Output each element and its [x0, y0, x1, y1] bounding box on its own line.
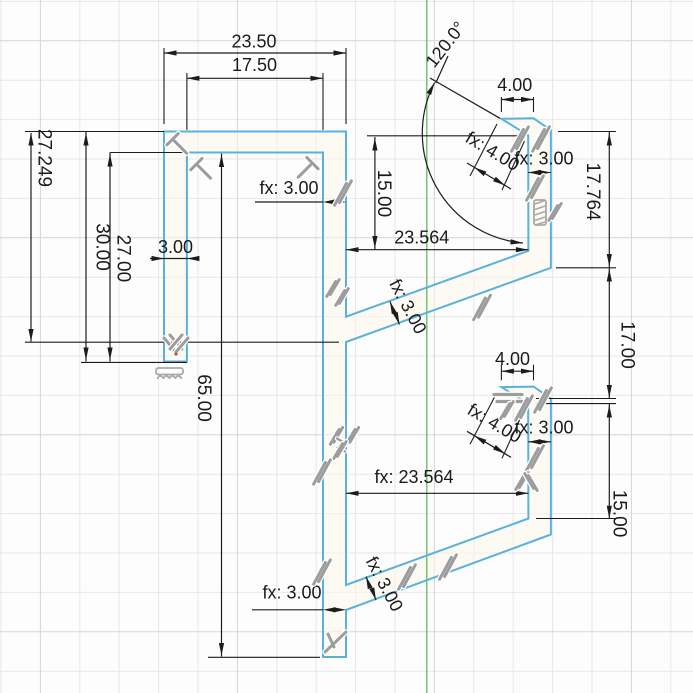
- dimension 120.0&#176;: [422, 83, 523, 243]
- dimension 23.564: [346, 249, 528, 251]
- dimension 65.00: [221, 154, 223, 657]
- constraint: parallel marks on lower strip inner face: [527, 446, 544, 470]
- dimension 15.00 (upper): [374, 137, 376, 250]
- svg-text:3.00: 3.00: [158, 237, 193, 257]
- dimension 27.249: [30, 133, 32, 342]
- svg-text:17.764: 17.764: [582, 163, 603, 222]
- svg-text:15.00: 15.00: [373, 170, 394, 218]
- constraint: marks near lower strip bend: [516, 473, 528, 490]
- red point at arm bottom: [174, 352, 177, 355]
- dimension 17.50: [187, 77, 323, 79]
- svg-text:4.00: 4.00: [495, 349, 530, 369]
- svg-text:15.00: 15.00: [608, 490, 629, 538]
- profile fill: [164, 118, 551, 657]
- dimension 4.00 (upper): [501, 99, 533, 101]
- constraint: parallel marks at upper tab: [512, 127, 529, 151]
- constraint: fixed (hatched) icon on upper strip: [534, 200, 546, 225]
- constraint: parallel marks on bottom diagonal: [440, 555, 457, 579]
- Y axis (green): [426, 0, 428, 693]
- constraint: parallel marks crossing wall at bottom diagonal: [314, 560, 331, 584]
- constraint: squiggle marks on wall mid: [337, 439, 345, 452]
- svg-text:fx: 23.564: fx: 23.564: [374, 467, 453, 487]
- svg-text:17.00: 17.00: [616, 321, 637, 369]
- svg-text:fx: 3.00: fx: 3.00: [514, 149, 573, 169]
- constraint: parallel marks near top bar right end: [335, 181, 352, 205]
- constraint: parallel marks right of fixed icon: [549, 204, 561, 221]
- constraint: parallel marks on middle diagonal: [474, 295, 491, 319]
- dimension fx: 3.00 (middle diagonal): [390, 302, 400, 325]
- profile outline (sketch): [164, 118, 551, 657]
- dimension 23.50: [164, 52, 346, 54]
- svg-text:27.249: 27.249: [33, 129, 54, 187]
- dimension fx: 23.564: [346, 492, 528, 494]
- dimension fx: 3.00 (bottom diagonal): [366, 577, 376, 601]
- svg-text:23.564: 23.564: [394, 228, 449, 248]
- svg-text:17.50: 17.50: [232, 55, 277, 75]
- constraint: parallel marks crossing wall lower-mid: [314, 460, 331, 484]
- svg-text:23.50: 23.50: [231, 32, 276, 52]
- constraint: perpendicular T at inner top-left corner: [191, 158, 216, 183]
- dimension fx: 4.00 (upper): [470, 124, 497, 176]
- svg-text:30.00: 30.00: [91, 223, 112, 271]
- dimension 27.00: [109, 153, 111, 362]
- dimension 17.764: [608, 132, 610, 268]
- svg-text:4.00: 4.00: [497, 75, 532, 95]
- svg-text:27.00: 27.00: [112, 235, 133, 283]
- dimension 4.00 (lower): [501, 370, 533, 372]
- dimension 30.00: [85, 132, 87, 362]
- constraint: perpendicular T inside wall bottom: [325, 632, 346, 652]
- constraint: V marks at left arm bottom: [164, 335, 182, 352]
- dimension 17.00: [608, 268, 610, 399]
- constraint: equal marks on wall mid: [330, 427, 342, 444]
- dimension fx: 4.00 (lower): [470, 392, 497, 444]
- constraint: perpendicular T near inner top-right: [293, 157, 318, 182]
- svg-text:fx: 3.00: fx: 3.00: [514, 418, 573, 438]
- constraint: parallel marks at middle diagonal near wall: [336, 289, 348, 306]
- constraint: fixed (hatched) icon below left arm: [156, 368, 183, 379]
- constraint: parallel marks on bottom diagonal mid: [399, 565, 416, 589]
- svg-text:fx: 3.00: fx: 3.00: [259, 178, 318, 198]
- svg-text:65.00: 65.00: [193, 374, 214, 422]
- constraint: cluster at lower tab: [494, 392, 522, 398]
- constraint: perpendicular T at outer top-left corner: [167, 134, 192, 159]
- constraint: parallel marks on upper strip inner face: [527, 176, 544, 200]
- dimension 15.00 (lower): [608, 404, 610, 519]
